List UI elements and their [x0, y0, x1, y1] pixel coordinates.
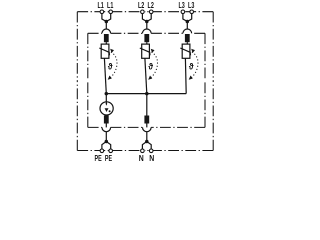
disconnector contact dome L2: [143, 29, 152, 33]
svg-text:N: N: [139, 153, 144, 163]
disconnector contact dome PE (downward): [102, 127, 111, 131]
wire: varistor L1 to bus: [104, 58, 106, 93]
wire: dome to PE junction: [105, 132, 107, 142]
terminal N (right): [149, 149, 153, 153]
node: bus / N branch: [145, 92, 149, 96]
wire: dome to N junction: [146, 132, 148, 142]
terminal PE (right): [109, 149, 113, 153]
svg-text:L3: L3: [178, 0, 184, 10]
svg-text:L2: L2: [138, 0, 144, 10]
wire: N terminal fork: [142, 142, 151, 149]
wire: disconnect to varistor: [105, 42, 107, 44]
node: N junction: [145, 140, 149, 144]
wire: varistor L2 to bus: [145, 58, 147, 93]
wire: L2 terminal fork: [142, 14, 151, 30]
thermal trip arrow upper head L2: [151, 49, 155, 53]
thermal trip dashed arc L2: [150, 52, 157, 78]
wire: bus to spark gap: [105, 94, 107, 102]
thermal trip arrow upper head L1: [110, 49, 114, 53]
thermal trip arrow lower head L1: [108, 76, 112, 80]
node: L2 junction: [145, 20, 149, 24]
varistor RV3 diagonal: [180, 48, 190, 55]
terminal L1 (left): [100, 10, 104, 14]
spark gap lower arrow head: [105, 108, 109, 112]
thermal disconnect element F5: [104, 116, 109, 124]
thermal disconnect element F2: [144, 34, 149, 42]
svg-text:L1: L1: [97, 0, 103, 10]
terminal L1 (right): [109, 10, 113, 14]
terminal L3 (left): [181, 10, 185, 14]
thermal trip arrow lower head L2: [148, 76, 152, 80]
wire: bus to disconnect: [146, 94, 148, 116]
wire: disconnect to varistor: [186, 42, 188, 44]
common bus wire: [106, 93, 186, 95]
thermal trip arrow lower head L3: [189, 76, 193, 80]
wire: L1 terminal fork: [102, 14, 111, 30]
svg-text:L1: L1: [107, 0, 113, 10]
terminal L3 (right): [190, 10, 194, 14]
disconnector contact dome L1: [102, 29, 111, 33]
spark gap upper arrow head: [106, 104, 108, 106]
node: L1 junction: [105, 20, 109, 24]
wire: L3 terminal fork: [183, 14, 192, 30]
thermal trip dashed arc L1: [110, 52, 117, 78]
varistor RV3 body: [182, 44, 190, 58]
enclosure outer border (dash-dot): [77, 12, 213, 151]
svg-text:PE: PE: [105, 153, 112, 163]
wire: PE terminal fork: [102, 142, 111, 149]
terminal L2 (right): [149, 10, 153, 14]
svg-text:N: N: [149, 153, 154, 163]
spark gap F4 (circle): [100, 102, 113, 115]
svg-text:L3: L3: [188, 0, 194, 10]
svg-text:ϑ: ϑ: [108, 61, 113, 72]
thermal trip arrow upper head L3: [191, 49, 195, 53]
terminal L2 (left): [141, 10, 145, 14]
varistor RV2 diagonal: [140, 48, 150, 55]
node: L3 junction: [186, 20, 190, 24]
thermal disconnect element F1: [104, 34, 109, 42]
thermal disconnect element F3: [185, 34, 190, 42]
svg-text:L2: L2: [148, 0, 154, 10]
wire: disconnect to dome: [146, 123, 148, 127]
disconnector contact dome L3: [183, 29, 192, 33]
node: PE junction: [105, 140, 109, 144]
svg-text:ϑ: ϑ: [148, 61, 153, 72]
wire: disconnect to varistor: [146, 42, 148, 44]
svg-text:PE: PE: [95, 153, 102, 163]
wire: varistor L3 down to bus corner: [184, 58, 187, 93]
disconnector contact dome N (downward): [143, 127, 152, 131]
varistor RV1 body: [101, 44, 109, 58]
spark gap electrode dot: [109, 110, 111, 112]
varistor RV2 body: [142, 44, 150, 58]
varistor RV1 diagonal: [99, 48, 109, 55]
wire: disconnect to dome: [105, 123, 107, 127]
wire: spark gap to disconnect: [105, 114, 107, 117]
node: bus / PE branch: [105, 92, 109, 96]
terminal N (left): [141, 149, 145, 153]
thermal disconnect element F6: [144, 116, 149, 124]
thermal trip dashed arc L3: [191, 52, 198, 78]
spark gap arrow shaft: [105, 102, 107, 104]
terminal PE (left): [100, 149, 104, 153]
svg-text:ϑ: ϑ: [189, 61, 194, 72]
protection module inner boundary (dash-dot, interrupted by contact domes): [88, 33, 205, 127]
